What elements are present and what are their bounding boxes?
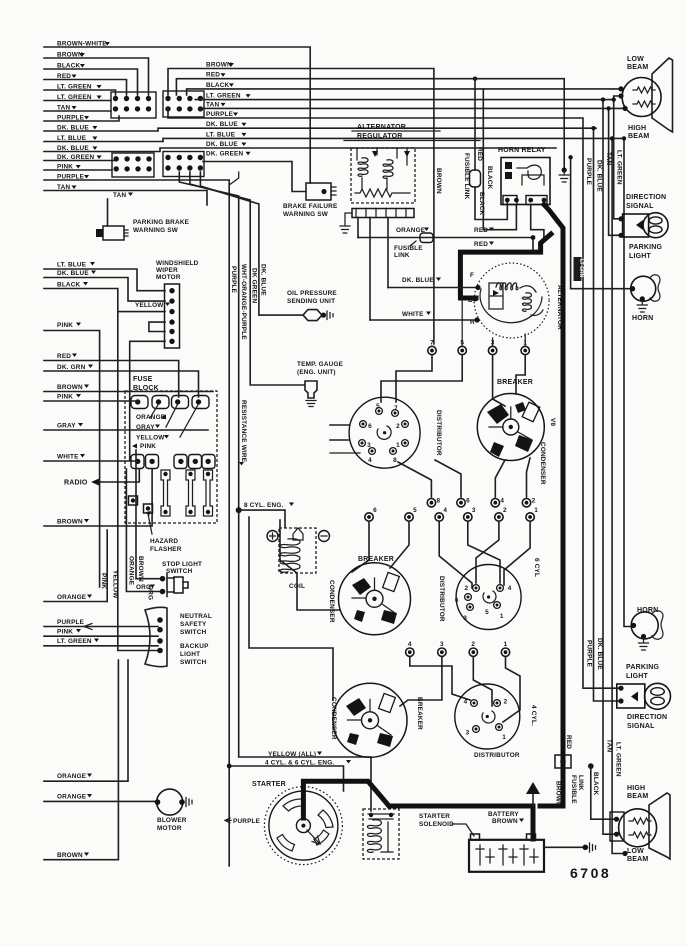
wire purple to neutral sw — [44, 626, 158, 628]
wire into v8 dist 1 — [330, 424, 349, 426]
horn upper — [631, 275, 660, 301]
svg-text:PURPLE: PURPLE — [586, 640, 593, 668]
svg-text:LINK: LINK — [394, 252, 410, 259]
horn lower — [631, 611, 663, 639]
svg-text:F: F — [470, 272, 474, 279]
svg-text:DK. GRN: DK. GRN — [57, 364, 86, 371]
wire brown lower long — [44, 660, 118, 860]
wire term3 to breaker — [493, 356, 505, 406]
wire regulator to orange — [357, 218, 359, 238]
svg-text:DISTRIBUTOR: DISTRIBUTOR — [474, 752, 520, 759]
wire black to horn relay — [483, 89, 516, 230]
wire orange vert — [106, 530, 108, 602]
ground regulator — [340, 222, 350, 233]
wire brown to battery — [452, 824, 474, 836]
wire red into block UL — [44, 80, 127, 96]
svg-text:4: 4 — [500, 498, 504, 505]
breaker V8 — [477, 394, 544, 461]
svg-text:PARKING: PARKING — [629, 244, 663, 251]
svg-text:LT. GREEN: LT. GREEN — [616, 150, 623, 185]
svg-text:BEAM: BEAM — [627, 856, 648, 863]
svg-text:7: 7 — [430, 340, 434, 347]
wire dk blue 2 bus across — [44, 148, 556, 152]
wire black into block UL — [44, 69, 138, 95]
svg-text:SOLENOID: SOLENOID — [419, 821, 454, 828]
svg-text:DK. GREEN: DK. GREEN — [206, 150, 243, 157]
svg-text:2: 2 — [503, 507, 507, 514]
wire term4 to v8 breaker — [495, 460, 505, 497]
svg-text:STARTER: STARTER — [252, 781, 286, 788]
svg-text:BROWN: BROWN — [137, 556, 144, 582]
svg-text:2: 2 — [504, 698, 508, 705]
svg-text:FUSE: FUSE — [133, 376, 153, 383]
wire 6cyl term3 to dist — [468, 523, 500, 584]
wire red bus to ground lug — [176, 79, 564, 169]
svg-text:6: 6 — [373, 507, 377, 514]
distributor 4 cyl — [455, 684, 520, 749]
cartridge fuses — [161, 470, 213, 516]
svg-text:V8: V8 — [549, 418, 556, 426]
wire black-yellow to wiper 3 — [44, 289, 165, 312]
wire purple long vertical center — [44, 180, 229, 866]
wire regulator to alternator R — [369, 218, 371, 321]
svg-text:PURPLE: PURPLE — [230, 266, 237, 294]
wire brown bus + vertical to ign terminal 7 — [168, 69, 434, 345]
svg-text:4 CYL.: 4 CYL. — [530, 705, 537, 726]
svg-text:CONDENSER: CONDENSER — [328, 580, 335, 623]
wire tan right stub — [44, 191, 207, 206]
svg-text:DK. BLUE: DK. BLUE — [402, 277, 434, 284]
wire tan long vertical to lower headlight — [603, 100, 616, 835]
svg-text:LIGHT: LIGHT — [629, 253, 652, 260]
svg-text:6: 6 — [466, 498, 470, 505]
svg-text:4: 4 — [508, 585, 512, 592]
svg-text:YELLOW (ALL): YELLOW (ALL) — [268, 751, 316, 758]
horn relay box — [501, 158, 550, 205]
wire lt green bus — [195, 99, 613, 101]
wire term2 to v8 breaker — [527, 458, 531, 497]
svg-text:NEUTRAL: NEUTRAL — [180, 613, 212, 620]
vlabel lt green dark — [574, 257, 582, 281]
wire red to fuse block — [44, 361, 179, 398]
wire term1 up — [524, 334, 526, 345]
svg-text:PARKING: PARKING — [626, 664, 660, 671]
svg-text:DK. BLUE: DK. BLUE — [57, 270, 89, 277]
wire 4cyl 6cyl eng — [229, 766, 343, 791]
connector block upper-left — [111, 92, 156, 118]
wire term6 to v8 dist — [435, 460, 461, 497]
wire term5 to distributor — [381, 356, 462, 402]
svg-text:MOTOR: MOTOR — [157, 825, 182, 832]
svg-text:5: 5 — [413, 507, 417, 514]
svg-text:BLOWER: BLOWER — [157, 817, 187, 824]
svg-text:YELLOW: YELLOW — [112, 570, 119, 599]
svg-text:HIGH: HIGH — [627, 785, 645, 792]
wire dk green vertical to temp gauge — [190, 172, 304, 385]
svg-text:STARTER: STARTER — [419, 813, 450, 820]
headlight lower — [619, 793, 670, 859]
svg-text:RED: RED — [565, 735, 572, 749]
svg-text:SENDING UNIT: SENDING UNIT — [287, 298, 335, 305]
svg-text:6: 6 — [455, 597, 459, 604]
blower motor — [155, 789, 192, 815]
wire vert to stop light 1 — [136, 450, 160, 579]
svg-text:DK. BLUE: DK. BLUE — [206, 121, 238, 128]
wire purple bus long vertical to direction signal lower — [168, 108, 621, 688]
svg-text:BLACK: BLACK — [206, 82, 230, 89]
svg-text:PINK: PINK — [57, 629, 73, 636]
svg-text:BLACK: BLACK — [592, 772, 599, 796]
svg-text:SWITCH: SWITCH — [180, 629, 207, 636]
wire black bus to headlight — [187, 89, 620, 95]
wire lt blue to wiper 1 — [44, 269, 165, 291]
svg-text:7: 7 — [394, 405, 398, 412]
connector block lower-left — [112, 153, 154, 177]
wire 6cyl term1 to dist — [504, 523, 530, 586]
svg-text:SIGNAL: SIGNAL — [627, 723, 655, 730]
svg-text:LT GRN: LT GRN — [578, 259, 584, 278]
breaker 6 cyl — [339, 563, 411, 635]
svg-text:DK. BLUE: DK. BLUE — [206, 141, 238, 148]
wire wiper 6 down — [130, 341, 165, 460]
svg-text:DISTRIBUTOR: DISTRIBUTOR — [435, 410, 442, 456]
svg-text:ORANGE: ORANGE — [57, 773, 87, 780]
svg-text:HORN: HORN — [632, 315, 653, 322]
wire horn relay to red feed — [531, 205, 544, 238]
wire regulator ground — [345, 213, 352, 221]
wire 6cyl term5 to breaker2 — [390, 523, 409, 569]
svg-text:DK. BLUE: DK. BLUE — [596, 160, 603, 192]
wire 4cyl term2 — [473, 658, 492, 707]
wire regulator to alternator F — [387, 218, 389, 288]
wire pink down — [44, 331, 100, 588]
alternator — [474, 263, 549, 338]
svg-text:PURPLE: PURPLE — [233, 818, 261, 825]
svg-text:RED: RED — [474, 241, 488, 248]
svg-text:BREAKER: BREAKER — [358, 556, 394, 563]
wire pink to neutral sw — [44, 635, 158, 637]
wire vert to stop light 2 — [126, 469, 160, 592]
svg-text:FUSIBLE: FUSIBLE — [394, 245, 423, 252]
svg-text:BREAKER: BREAKER — [416, 697, 423, 730]
svg-text:ORANGE: ORANGE — [57, 594, 87, 601]
svg-text:2: 2 — [532, 498, 536, 505]
wire dk grn to fuse block — [44, 371, 199, 397]
svg-text:RED: RED — [57, 353, 71, 360]
svg-text:3: 3 — [463, 615, 467, 622]
svg-text:PINK: PINK — [57, 322, 73, 329]
svg-text:BEAM: BEAM — [628, 133, 649, 140]
wire yellow all lower to solenoid — [239, 510, 371, 811]
svg-text:LOW: LOW — [627, 56, 644, 63]
fuse block dashed outline — [125, 391, 217, 523]
svg-text:BEAM: BEAM — [627, 64, 648, 71]
connector block lower-right — [163, 152, 204, 177]
heavy wire junction overlap — [540, 804, 563, 809]
svg-text:TAN: TAN — [606, 739, 613, 752]
svg-text:PINK: PINK — [100, 573, 107, 589]
svg-text:STOP LIGHT: STOP LIGHT — [162, 561, 202, 568]
connector on heavy vertical — [555, 755, 571, 768]
svg-text:RED: RED — [206, 72, 220, 79]
svg-text:HORN RELAY: HORN RELAY — [498, 147, 546, 154]
svg-text:4: 4 — [368, 457, 372, 464]
svg-text:REGULATOR: REGULATOR — [357, 133, 403, 140]
svg-text:FLASHER: FLASHER — [150, 546, 182, 553]
svg-text:SWITCH: SWITCH — [166, 568, 193, 575]
wire dk green vertical to horn — [571, 157, 632, 288]
svg-text:GRAY: GRAY — [57, 423, 76, 430]
svg-text:LT. GREEN: LT. GREEN — [206, 93, 241, 100]
terminal row 8 6 4 2 — [427, 498, 535, 507]
wire tan bus to headlight low terminal — [200, 107, 625, 109]
wire wiper loop 4-5 — [149, 322, 165, 331]
svg-text:(ENG. UNIT): (ENG. UNIT) — [297, 369, 336, 376]
svg-text:DISTRIBUTOR: DISTRIBUTOR — [438, 576, 445, 622]
wire term1 down to breaker — [516, 356, 525, 394]
svg-text:BACKUP: BACKUP — [180, 643, 209, 650]
svg-text:6708: 6708 — [570, 865, 611, 881]
wire to direction signal upper — [614, 100, 621, 219]
wire tan into block UL — [44, 110, 111, 112]
svg-text:WIPER: WIPER — [156, 267, 178, 274]
ground horn lower — [639, 639, 649, 650]
wire hazard arrow — [148, 514, 152, 534]
svg-text:BROWN: BROWN — [57, 519, 83, 526]
wire black to lower headlight — [591, 766, 616, 819]
heavy wire horn relay to battery feed — [544, 205, 563, 807]
wire vertical to lower horn — [624, 138, 633, 626]
wire lt green into block UL — [44, 90, 116, 95]
svg-text:DIRECTION: DIRECTION — [627, 714, 667, 721]
terminal row 4 3 2 1 — [406, 641, 510, 656]
svg-text:PURPLE: PURPLE — [585, 158, 592, 186]
svg-text:WARNING SW: WARNING SW — [133, 227, 179, 234]
svg-text:PURPLE: PURPLE — [206, 111, 234, 118]
svg-text:5: 5 — [485, 609, 489, 616]
terminal row 6 5 4 3 2 1 — [365, 507, 538, 521]
svg-text:BEAM: BEAM — [627, 793, 648, 800]
wiper motor connector — [165, 284, 180, 348]
wire orange-red feed — [358, 238, 533, 251]
svg-text:CONDENSER: CONDENSER — [539, 442, 546, 485]
wire fuse diag 1 — [150, 404, 159, 418]
wire 4cyl term1 — [503, 658, 520, 723]
wire tan to parking brake sw — [107, 199, 109, 226]
svg-text:4: 4 — [408, 641, 412, 648]
svg-text:BROWN: BROWN — [206, 62, 232, 69]
svg-text:TAN: TAN — [605, 152, 612, 165]
wire jog to headlight mid terminal — [614, 96, 621, 100]
svg-text:2: 2 — [471, 641, 475, 648]
breaker 4 cyl — [333, 683, 407, 757]
svg-text:SWITCH: SWITCH — [180, 659, 207, 666]
fusible link symbol on feed — [420, 233, 433, 243]
wire orange 1 — [44, 601, 107, 603]
svg-text:PINK: PINK — [140, 443, 156, 450]
svg-text:BROWN: BROWN — [57, 384, 83, 391]
wire under regulator text — [344, 140, 480, 142]
wire arrow stem — [532, 794, 534, 806]
wire brown-white to brake failure sw — [44, 47, 310, 183]
wire battery to ground lug — [544, 846, 584, 848]
connector block upper-right — [163, 91, 204, 117]
svg-text:PINK: PINK — [57, 394, 73, 401]
svg-text:2: 2 — [465, 585, 469, 592]
wire orange lower 1 — [44, 660, 128, 781]
battery feed arrow — [526, 782, 540, 794]
svg-text:WHITE: WHITE — [57, 454, 79, 461]
neutral safety + backup light switch — [145, 607, 167, 666]
wire coil bottom to breaker2 — [280, 520, 340, 610]
wire block to purple vert — [229, 172, 239, 185]
wire white to alternator R — [370, 319, 477, 321]
wire orange to blower — [44, 800, 158, 802]
svg-text:BATTERY: BATTERY — [488, 811, 519, 818]
regulator base connector — [352, 209, 414, 218]
heavy wire alternator BAT to junction — [460, 234, 551, 298]
wire 6cyl term6 to breaker2 — [352, 523, 369, 573]
wire into v8 dist 2 — [330, 439, 349, 441]
svg-text:LT. GREEN: LT. GREEN — [615, 742, 622, 777]
svg-text:1: 1 — [504, 641, 508, 648]
wire dk blue to alternator F — [388, 287, 478, 289]
stop light switch symbol — [160, 574, 188, 597]
wire fuse diag 3 — [180, 404, 199, 437]
svg-text:BROWN: BROWN — [435, 168, 442, 194]
svg-text:YELLOW: YELLOW — [135, 302, 164, 309]
ignition coil — [279, 528, 316, 573]
starter solenoid — [363, 809, 399, 859]
svg-text:BROWN: BROWN — [57, 852, 83, 859]
svg-text:ORANGE: ORANGE — [396, 227, 426, 234]
svg-text:3: 3 — [472, 507, 476, 514]
svg-text:OIL PRESSURE: OIL PRESSURE — [287, 290, 337, 297]
svg-text:DK. BLUE: DK. BLUE — [596, 638, 603, 670]
svg-text:GRAY: GRAY — [136, 424, 155, 431]
svg-text:WHITE: WHITE — [402, 311, 424, 318]
oil pressure sender symbol — [303, 310, 333, 321]
svg-text:ALTERNATOR: ALTERNATOR — [357, 124, 406, 131]
parking/direction lamp lower — [617, 683, 671, 709]
wire 4cyl term3 to breaker3 — [400, 658, 442, 707]
svg-text:8: 8 — [393, 457, 397, 464]
wire term3 up — [492, 338, 494, 345]
wire dk blue vertical to oil sender — [200, 172, 302, 315]
svg-text:DK. BLUE: DK. BLUE — [260, 264, 267, 296]
svg-text:4: 4 — [464, 698, 468, 705]
svg-text:LT. BLUE: LT. BLUE — [57, 262, 87, 269]
svg-text:TEMP. GAUGE: TEMP. GAUGE — [297, 361, 344, 368]
wire yellow down to fuse block — [117, 312, 119, 433]
temp gauge symbol — [305, 381, 317, 407]
svg-text:LIGHT: LIGHT — [626, 673, 649, 680]
wire pink to fuse block — [44, 400, 138, 402]
svg-text:BREAKER: BREAKER — [497, 379, 533, 386]
wire brown to fuse block — [44, 391, 213, 393]
wire 6cyl term2 to dist — [476, 523, 499, 584]
parking brake warning switch — [96, 226, 128, 240]
svg-text:6: 6 — [368, 423, 372, 430]
wire tap to fusible link — [474, 79, 476, 170]
svg-text:BRAKE FAILURE: BRAKE FAILURE — [283, 203, 338, 210]
svg-text:LINK: LINK — [577, 775, 584, 791]
svg-text:TAN: TAN — [206, 101, 219, 108]
svg-text:BLACK: BLACK — [57, 282, 81, 289]
svg-text:4: 4 — [443, 507, 447, 514]
svg-text:6 CYL: 6 CYL — [533, 558, 540, 577]
wire 6cyl term4 to dist — [439, 523, 472, 589]
svg-text:BROWN: BROWN — [492, 818, 518, 825]
svg-text:CONDENSER: CONDENSER — [330, 697, 337, 740]
svg-text:4 CYL. & 6 CYL. ENG.: 4 CYL. & 6 CYL. ENG. — [265, 760, 334, 767]
wire resistance wire vertical — [179, 172, 238, 510]
fuse row top — [131, 396, 209, 409]
svg-text:TAN: TAN — [113, 192, 126, 199]
wire pink into block LL — [44, 169, 112, 171]
wire 8cyl to coil plus — [239, 510, 285, 527]
wire term8 to v8 dist — [398, 462, 431, 497]
wire dk blue to wiper 2 — [44, 278, 165, 302]
wire term5 up — [461, 255, 463, 345]
svg-text:SIGNAL: SIGNAL — [626, 203, 654, 210]
svg-text:5: 5 — [376, 403, 380, 410]
wire to parking light upper — [609, 108, 621, 235]
wire lt green to backup sw — [44, 645, 158, 647]
wire coil loop left — [249, 517, 333, 700]
svg-text:ORG: ORG — [136, 584, 151, 591]
wire dk green to brake failure sw — [203, 162, 306, 192]
svg-text:BROWN: BROWN — [555, 781, 562, 807]
svg-text:ORANGE: ORANGE — [57, 794, 87, 801]
battery — [469, 834, 544, 872]
distributor V8 — [349, 397, 420, 468]
svg-text:WHT-ORANGE-PURPLE: WHT-ORANGE-PURPLE — [240, 264, 247, 340]
svg-text:3: 3 — [466, 729, 470, 736]
svg-text:DK GREEN: DK GREEN — [251, 268, 258, 304]
wire red fusible to horn relay — [475, 187, 507, 220]
wire lt green 2 into block UL — [44, 100, 111, 102]
svg-text:1: 1 — [502, 734, 506, 741]
ground symbol right bundle — [562, 167, 567, 172]
wire lt blue bus across — [44, 138, 624, 141]
svg-text:WARNING SW: WARNING SW — [283, 211, 329, 218]
wire fuse diag 2 — [166, 404, 178, 427]
svg-text:LT. GREEN: LT. GREEN — [57, 638, 92, 645]
starter motor — [264, 787, 342, 865]
wire radio — [99, 469, 139, 482]
wire purple into block UL bottom — [44, 116, 119, 121]
distributor 6 cyl — [455, 565, 521, 630]
svg-text:HAZARD: HAZARD — [150, 538, 178, 545]
wire brown into block UL — [44, 58, 149, 95]
fuse row middle — [131, 455, 215, 469]
wire yellow vert to backup sw — [118, 433, 158, 651]
wire 4cyl term4 — [410, 658, 470, 701]
svg-text:WINDSHIELD: WINDSHIELD — [156, 260, 199, 267]
ground battery lug — [590, 843, 596, 852]
svg-text:1: 1 — [396, 442, 400, 449]
wire dk blue bus across — [44, 128, 596, 131]
wire dk blue vertical to parking light lower — [594, 128, 622, 701]
svg-text:1: 1 — [534, 507, 538, 514]
svg-text:LOW: LOW — [627, 848, 644, 855]
svg-text:1: 1 — [500, 613, 504, 620]
wire term7 to distributor — [396, 356, 432, 402]
heavy wire starter to battery — [303, 781, 533, 839]
svg-text:LT. BLUE: LT. BLUE — [206, 131, 236, 138]
svg-text:YELLOW: YELLOW — [136, 435, 165, 442]
